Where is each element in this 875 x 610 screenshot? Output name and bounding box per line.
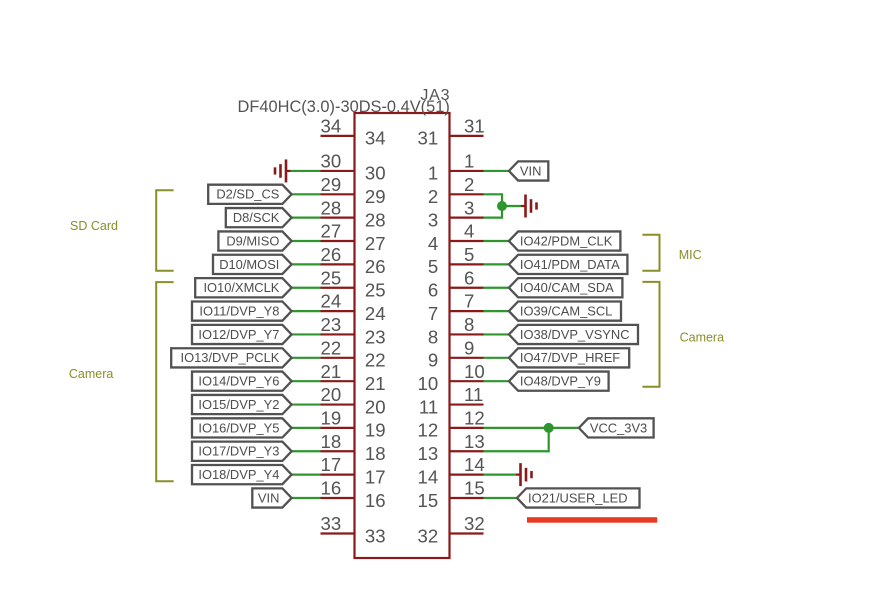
pin 21 (left, stub + pad number + pin name)	[321, 361, 386, 394]
svg-text:31: 31	[418, 128, 439, 149]
wire pin3 to junction	[484, 206, 503, 218]
svg-text:MIC: MIC	[679, 248, 702, 262]
svg-text:IO42/PDM_CLK: IO42/PDM_CLK	[520, 233, 613, 248]
svg-text:33: 33	[321, 513, 342, 534]
svg-text:29: 29	[321, 174, 342, 195]
svg-text:15: 15	[464, 478, 485, 499]
svg-text:8: 8	[428, 326, 438, 347]
net label D10/MOSI (pin 26)	[213, 255, 292, 274]
svg-text:19: 19	[365, 420, 386, 441]
svg-text:IO15/DVP_Y2: IO15/DVP_Y2	[198, 397, 279, 412]
pin 16 (left, stub + pad number + pin name)	[321, 478, 386, 511]
svg-text:IO11/DVP_Y8: IO11/DVP_Y8	[199, 304, 279, 319]
net label IO21/USER_LED (pin 15)	[517, 488, 640, 507]
svg-text:11: 11	[464, 384, 483, 405]
wire pin30 to ground	[291, 170, 321, 172]
svg-text:20: 20	[365, 396, 386, 417]
net label IO48/DVP_Y9 (pin 10)	[509, 372, 609, 391]
pin 34 (left, stub + pad number + pin name)	[321, 116, 386, 149]
svg-text:D8/SCK: D8/SCK	[233, 210, 280, 225]
pin 17 (left, stub + pad number + pin name)	[321, 454, 386, 487]
svg-text:13: 13	[418, 443, 439, 464]
wire pin6 to net label IO40/CAM_SDA	[484, 287, 511, 289]
svg-text:24: 24	[365, 303, 386, 324]
wire junction to ground	[502, 205, 521, 207]
svg-text:1: 1	[428, 163, 438, 184]
svg-text:IO13/DVP_PCLK: IO13/DVP_PCLK	[181, 350, 280, 365]
svg-text:VIN: VIN	[520, 163, 542, 178]
pin 23 (left, stub + pad number + pin name)	[321, 314, 386, 347]
svg-text:IO38/DVP_VSYNC: IO38/DVP_VSYNC	[520, 327, 630, 342]
svg-text:IO48/DVP_Y9: IO48/DVP_Y9	[520, 374, 601, 389]
pin 22 (left, stub + pad number + pin name)	[321, 337, 386, 370]
wire pin15 to net label IO21/USER_LED	[484, 497, 520, 499]
pin 8 (right, stub + pad number + pin name)	[428, 314, 484, 347]
svg-text:15: 15	[418, 490, 439, 511]
svg-text:IO14/DVP_Y6: IO14/DVP_Y6	[198, 374, 279, 389]
pin 25 (left, stub + pad number + pin name)	[321, 267, 386, 300]
wire pin25 to net label IO10/XMCLK	[290, 287, 321, 289]
svg-text:IO10/XMCLK: IO10/XMCLK	[203, 280, 279, 295]
svg-text:23: 23	[321, 314, 342, 335]
group bracket Camera (left)	[156, 282, 173, 481]
svg-text:SD Card: SD Card	[70, 219, 118, 233]
svg-text:D2/SD_CS: D2/SD_CS	[216, 187, 279, 202]
net label IO42/PDM_CLK (pin 4)	[509, 231, 621, 250]
wire pin20 to net label IO15/DVP_Y2	[290, 403, 321, 405]
annotation underline (highlight under IO21/USER_LED)	[527, 517, 657, 523]
net label IO11/DVP_Y8 (pin 24)	[192, 302, 292, 321]
junction (pins 12/13 net)	[544, 423, 554, 433]
svg-text:27: 27	[365, 233, 386, 254]
svg-text:IO39/CAM_SCL: IO39/CAM_SCL	[520, 304, 612, 319]
wire pin27 to net label D9/MISO	[290, 240, 321, 242]
pin 12 (right, stub + pad number + pin name)	[418, 408, 485, 441]
wire pin17 to net label IO18/DVP_Y4	[290, 474, 321, 476]
svg-text:16: 16	[321, 478, 342, 499]
svg-text:17: 17	[365, 466, 386, 487]
net label IO12/DVP_Y7 (pin 23)	[192, 325, 292, 344]
svg-text:6: 6	[464, 267, 474, 288]
group label MIC	[679, 248, 702, 262]
pin 11 (right, stub + pad number + pin name)	[419, 384, 484, 417]
svg-text:12: 12	[464, 408, 485, 429]
svg-text:11: 11	[419, 396, 438, 417]
svg-text:26: 26	[365, 256, 386, 277]
svg-text:14: 14	[464, 454, 485, 475]
ground (pin 30, left)	[275, 159, 291, 182]
svg-text:4: 4	[464, 221, 474, 242]
wire pin13 to junction	[484, 428, 549, 451]
svg-text:18: 18	[321, 431, 342, 452]
pin 27 (left, stub + pad number + pin name)	[321, 221, 386, 254]
svg-text:26: 26	[321, 244, 342, 265]
svg-text:9: 9	[428, 350, 438, 371]
wire pin22 to net label IO13/DVP_PCLK	[290, 357, 321, 359]
net label IO17/DVP_Y3 (pin 18)	[192, 442, 292, 461]
svg-text:D9/MISO: D9/MISO	[226, 233, 279, 248]
net label IO38/DVP_VSYNC (pin 8)	[509, 325, 638, 344]
pin 13 (right, stub + pad number + pin name)	[418, 431, 485, 464]
group bracket SD Card	[156, 190, 173, 271]
ground (pins 2/3)	[521, 194, 537, 217]
svg-text:28: 28	[321, 197, 342, 218]
wire pin5 to net label IO41/PDM_DATA	[484, 263, 511, 265]
svg-text:9: 9	[464, 337, 474, 358]
svg-text:5: 5	[428, 256, 438, 277]
svg-text:3: 3	[428, 209, 438, 230]
svg-text:27: 27	[321, 221, 342, 242]
pin 26 (left, stub + pad number + pin name)	[321, 244, 386, 277]
net label D8/SCK (pin 28)	[226, 208, 292, 227]
pin 28 (left, stub + pad number + pin name)	[321, 197, 386, 230]
pin 15 (right, stub + pad number + pin name)	[418, 478, 485, 511]
wire pin12 to junction to VCC_3V3	[484, 427, 579, 429]
pin 7 (right, stub + pad number + pin name)	[428, 291, 484, 324]
svg-text:23: 23	[365, 326, 386, 347]
svg-text:6: 6	[428, 280, 438, 301]
pin 20 (left, stub + pad number + pin name)	[321, 384, 386, 417]
svg-text:IO41/PDM_DATA: IO41/PDM_DATA	[520, 257, 620, 272]
svg-text:12: 12	[418, 420, 439, 441]
net label IO39/CAM_SCL (pin 7)	[509, 302, 621, 321]
svg-text:IO16/DVP_Y5: IO16/DVP_Y5	[198, 420, 279, 435]
svg-text:21: 21	[365, 373, 386, 394]
pin 32 (right, stub + pad number + pin name)	[418, 513, 485, 546]
svg-text:25: 25	[365, 280, 386, 301]
svg-text:34: 34	[321, 116, 342, 137]
pin 19 (left, stub + pad number + pin name)	[321, 408, 386, 441]
svg-text:VCC_3V3: VCC_3V3	[590, 420, 647, 435]
svg-text:IO12/DVP_Y7: IO12/DVP_Y7	[198, 327, 279, 342]
svg-text:16: 16	[365, 490, 386, 511]
pin 18 (left, stub + pad number + pin name)	[321, 431, 386, 464]
wire pin14 to ground	[484, 474, 517, 476]
pin 1 (right, stub + pad number + pin name)	[428, 151, 484, 184]
svg-text:IO18/DVP_Y4: IO18/DVP_Y4	[198, 467, 279, 482]
net label IO13/DVP_PCLK (pin 22)	[171, 348, 291, 367]
net label D2/SD_CS (pin 29)	[208, 185, 291, 204]
svg-text:Camera: Camera	[680, 331, 725, 345]
svg-text:VIN: VIN	[258, 490, 280, 505]
connector JA3 body	[355, 113, 450, 558]
pin 30 (left, stub + pad number + pin name)	[321, 151, 386, 184]
svg-text:D10/MOSI: D10/MOSI	[219, 257, 279, 272]
svg-text:29: 29	[365, 186, 386, 207]
svg-text:20: 20	[321, 384, 342, 405]
svg-text:33: 33	[365, 525, 386, 546]
svg-text:2: 2	[464, 174, 474, 195]
pin 4 (right, stub + pad number + pin name)	[428, 221, 484, 254]
svg-text:10: 10	[418, 373, 439, 394]
svg-text:19: 19	[321, 408, 342, 429]
junction (pins 2/3 net)	[497, 201, 507, 211]
connector JA3 value DF40HC(3.0)-30DS-0.4V(51)	[238, 98, 450, 116]
pin 33 (left, stub + pad number + pin name)	[321, 513, 386, 546]
pin 2 (right, stub + pad number + pin name)	[428, 174, 484, 207]
wire pin19 to net label IO16/DVP_Y5	[290, 427, 321, 429]
wire pin10 to net label IO48/DVP_Y9	[484, 380, 511, 382]
svg-text:32: 32	[464, 513, 485, 534]
wire pin21 to net label IO14/DVP_Y6	[290, 380, 321, 382]
net label IO15/DVP_Y2 (pin 20)	[192, 395, 292, 414]
svg-text:IO40/CAM_SDA: IO40/CAM_SDA	[520, 280, 614, 295]
svg-text:30: 30	[365, 163, 386, 184]
svg-text:17: 17	[321, 454, 342, 475]
svg-text:18: 18	[365, 443, 386, 464]
svg-text:7: 7	[464, 291, 474, 312]
svg-text:31: 31	[464, 116, 485, 137]
svg-text:7: 7	[428, 303, 438, 324]
wire pin7 to net label IO39/CAM_SCL	[484, 310, 511, 312]
power flag VIN (pin 16)	[252, 488, 291, 507]
net label IO40/CAM_SDA (pin 6)	[509, 278, 623, 297]
svg-text:5: 5	[464, 244, 474, 265]
svg-text:13: 13	[464, 431, 485, 452]
svg-text:28: 28	[365, 209, 386, 230]
svg-text:14: 14	[418, 466, 439, 487]
svg-text:25: 25	[321, 267, 342, 288]
wire pin1 to VIN flag	[484, 170, 511, 172]
svg-text:8: 8	[464, 314, 474, 335]
pin 10 (right, stub + pad number + pin name)	[418, 361, 485, 394]
svg-text:IO47/DVP_HREF: IO47/DVP_HREF	[520, 350, 620, 365]
group label Camera (right)	[680, 331, 725, 345]
svg-text:1: 1	[464, 151, 474, 172]
wire pin28 to net label D8/SCK	[290, 217, 321, 219]
ground (pin 14)	[516, 463, 532, 486]
pin 24 (left, stub + pad number + pin name)	[321, 291, 386, 324]
svg-text:34: 34	[365, 128, 386, 149]
svg-text:22: 22	[365, 350, 386, 371]
connector JA3 reference designator JA3	[420, 87, 450, 104]
group label Camera (left)	[69, 367, 114, 381]
group bracket Camera (right)	[642, 282, 659, 387]
net label IO18/DVP_Y4 (pin 17)	[192, 465, 292, 484]
svg-text:22: 22	[321, 337, 342, 358]
wire pin18 to net label IO17/DVP_Y3	[290, 450, 321, 452]
net label D9/MISO (pin 27)	[218, 231, 291, 250]
wire pin23 to net label IO12/DVP_Y7	[290, 333, 321, 335]
net label IO14/DVP_Y6 (pin 21)	[192, 372, 292, 391]
wire pin4 to net label IO42/PDM_CLK	[484, 240, 511, 242]
wire pin16 to net label VIN	[290, 497, 321, 499]
svg-text:4: 4	[428, 233, 438, 254]
pin 6 (right, stub + pad number + pin name)	[428, 267, 484, 300]
svg-text:21: 21	[321, 361, 342, 382]
wire pin2 to junction	[484, 194, 503, 206]
pin 14 (right, stub + pad number + pin name)	[418, 454, 485, 487]
power flag VIN (pin 1)	[509, 161, 548, 180]
pin 29 (left, stub + pad number + pin name)	[321, 174, 386, 207]
net label IO41/PDM_DATA (pin 5)	[509, 255, 628, 274]
svg-text:Camera: Camera	[69, 367, 114, 381]
svg-text:IO17/DVP_Y3: IO17/DVP_Y3	[198, 444, 279, 459]
wire pin26 to net label D10/MOSI	[290, 263, 321, 265]
net label IO47/DVP_HREF (pin 9)	[509, 348, 629, 367]
svg-text:10: 10	[464, 361, 485, 382]
pin 5 (right, stub + pad number + pin name)	[428, 244, 484, 277]
pin 9 (right, stub + pad number + pin name)	[428, 337, 484, 370]
wire pin29 to net label D2/SD_CS	[290, 193, 321, 195]
wire pin8 to net label IO38/DVP_VSYNC	[484, 333, 511, 335]
svg-text:30: 30	[321, 151, 342, 172]
net label IO16/DVP_Y5 (pin 19)	[192, 418, 292, 437]
svg-text:3: 3	[464, 197, 474, 218]
svg-text:2: 2	[428, 186, 438, 207]
svg-text:DF40HC(3.0)-30DS-0.4V(51): DF40HC(3.0)-30DS-0.4V(51)	[238, 98, 450, 116]
power flag VCC_3V3	[579, 418, 654, 437]
group label SD Card	[70, 219, 118, 233]
group bracket MIC	[642, 235, 659, 271]
pin 31 (right, stub + pad number + pin name)	[418, 116, 485, 149]
svg-text:24: 24	[321, 291, 342, 312]
svg-text:IO21/USER_LED: IO21/USER_LED	[528, 490, 628, 505]
svg-text:32: 32	[418, 525, 439, 546]
wire pin9 to net label IO47/DVP_HREF	[484, 357, 511, 359]
net label IO10/XMCLK (pin 25)	[195, 278, 291, 297]
wire pin24 to net label IO11/DVP_Y8	[290, 310, 321, 312]
pin 3 (right, stub + pad number + pin name)	[428, 197, 484, 230]
